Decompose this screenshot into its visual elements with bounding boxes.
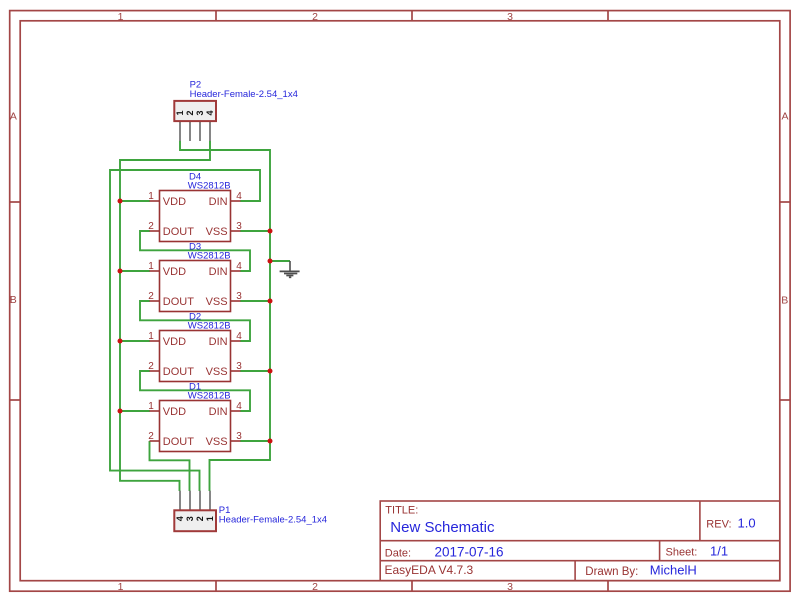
svg-text:VDD: VDD <box>163 336 186 348</box>
svg-text:2: 2 <box>312 11 318 23</box>
svg-text:DOUT: DOUT <box>163 226 194 238</box>
svg-text:4: 4 <box>205 110 215 115</box>
svg-text:2: 2 <box>148 291 154 302</box>
svg-text:3: 3 <box>236 361 242 372</box>
svg-text:1: 1 <box>175 110 185 115</box>
svg-text:1: 1 <box>148 261 154 272</box>
svg-text:4: 4 <box>236 261 242 272</box>
svg-text:2: 2 <box>148 361 154 372</box>
svg-text:B: B <box>781 295 788 307</box>
svg-text:VSS: VSS <box>206 436 228 448</box>
svg-text:TITLE:: TITLE: <box>385 505 418 517</box>
svg-text:1: 1 <box>148 191 154 202</box>
svg-text:3: 3 <box>195 110 205 115</box>
svg-text:1: 1 <box>205 516 215 521</box>
svg-text:VDD: VDD <box>163 266 186 278</box>
svg-text:1: 1 <box>118 11 124 23</box>
svg-text:2: 2 <box>148 221 154 232</box>
svg-text:2: 2 <box>312 581 318 593</box>
svg-text:A: A <box>781 111 788 123</box>
svg-text:1.0: 1.0 <box>738 516 756 531</box>
svg-text:Header-Female-2.54_1x4: Header-Female-2.54_1x4 <box>219 515 327 526</box>
svg-text:DIN: DIN <box>209 406 228 418</box>
svg-text:DOUT: DOUT <box>163 436 194 448</box>
svg-text:EasyEDA V4.7.3: EasyEDA V4.7.3 <box>385 563 474 577</box>
svg-text:VSS: VSS <box>206 366 228 378</box>
svg-text:VSS: VSS <box>206 226 228 238</box>
svg-text:A: A <box>10 111 17 123</box>
svg-text:4: 4 <box>175 516 185 521</box>
svg-text:3: 3 <box>236 431 242 442</box>
svg-text:Sheet:: Sheet: <box>666 547 698 559</box>
svg-text:WS2812B: WS2812B <box>188 251 231 262</box>
svg-text:B: B <box>10 294 17 306</box>
svg-text:Header-Female-2.54_1x4: Header-Female-2.54_1x4 <box>190 89 298 100</box>
svg-text:WS2812B: WS2812B <box>188 321 231 332</box>
svg-text:WS2812B: WS2812B <box>188 391 231 402</box>
svg-text:3: 3 <box>236 221 242 232</box>
svg-text:Date:: Date: <box>385 547 411 559</box>
svg-text:2: 2 <box>195 516 205 521</box>
svg-text:DIN: DIN <box>209 336 228 348</box>
svg-text:3: 3 <box>507 11 513 23</box>
svg-text:DOUT: DOUT <box>163 296 194 308</box>
svg-text:4: 4 <box>236 191 242 202</box>
svg-text:2: 2 <box>148 431 154 442</box>
svg-text:Drawn By:: Drawn By: <box>585 566 638 578</box>
svg-text:DOUT: DOUT <box>163 366 194 378</box>
svg-text:REV:: REV: <box>706 519 731 531</box>
svg-text:1/1: 1/1 <box>710 544 728 559</box>
svg-text:VSS: VSS <box>206 296 228 308</box>
svg-text:VDD: VDD <box>163 406 186 418</box>
svg-text:DIN: DIN <box>209 196 228 208</box>
svg-text:4: 4 <box>236 331 242 342</box>
svg-text:1: 1 <box>148 331 154 342</box>
svg-text:3: 3 <box>236 291 242 302</box>
svg-text:3: 3 <box>185 516 195 521</box>
svg-text:1: 1 <box>118 581 124 593</box>
svg-text:1: 1 <box>148 401 154 412</box>
svg-text:DIN: DIN <box>209 266 228 278</box>
svg-text:MichelH: MichelH <box>650 563 697 578</box>
svg-text:VDD: VDD <box>163 196 186 208</box>
svg-text:3: 3 <box>507 581 513 593</box>
svg-text:2: 2 <box>185 110 195 115</box>
svg-text:WS2812B: WS2812B <box>188 181 231 192</box>
svg-text:New Schematic: New Schematic <box>390 519 495 536</box>
svg-text:4: 4 <box>236 401 242 412</box>
svg-text:2017-07-16: 2017-07-16 <box>435 544 504 559</box>
